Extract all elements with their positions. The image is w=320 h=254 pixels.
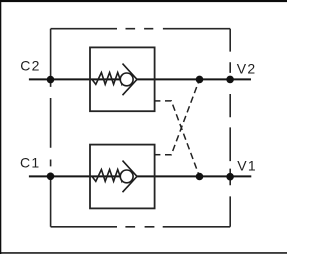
enclosure boundary: right edge (long-dash) — [229, 29, 231, 227]
junction top pilot tap — [196, 76, 204, 84]
enclosure boundary: left edge (long-dash) — [50, 29, 52, 227]
junction C2 port — [47, 76, 55, 84]
check valve body (bottom) — [90, 145, 155, 209]
junction V1 port — [226, 173, 234, 181]
svg-text:V1: V1 — [237, 157, 257, 173]
wire C1 to V1 (bottom flow line) — [29, 175, 251, 177]
spring (bottom check valve) — [93, 170, 124, 182]
wire C2 to V2 (top flow line) — [29, 78, 251, 80]
pilot line bottom valve to top wire (dashed) — [165, 79, 200, 154]
page frame bottom — [0, 252, 287, 254]
enclosure boundary: top edge (long-dash) — [51, 28, 231, 30]
pilot stub from top valve — [155, 100, 161, 102]
check valve body (top) — [90, 47, 155, 111]
ball (top check valve) — [120, 73, 133, 86]
page frame left — [0, 0, 1, 254]
seat chevron (bottom check valve) — [123, 161, 138, 193]
svg-text:C1: C1 — [20, 155, 41, 171]
seat chevron (top check valve) — [123, 64, 138, 96]
pilot line top valve to bottom wire (dashed) — [165, 101, 200, 177]
svg-text:V2: V2 — [237, 60, 257, 76]
svg-text:C2: C2 — [20, 57, 41, 73]
pilot stub from bottom valve — [155, 154, 161, 156]
junction V2 port — [226, 76, 234, 84]
ball (bottom check valve) — [120, 170, 133, 183]
junction C1 port — [47, 173, 55, 181]
spring (top check valve) — [93, 73, 124, 85]
junction bottom pilot tap — [196, 173, 204, 181]
enclosure boundary: bottom edge (long-dash) — [51, 226, 231, 228]
page frame top — [0, 0, 287, 2]
